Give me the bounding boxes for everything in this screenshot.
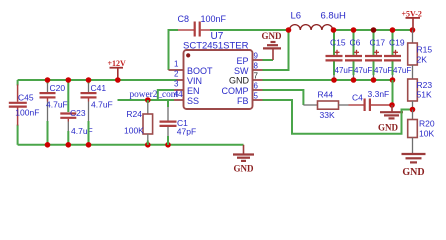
- wire left vertical with C45 inline: [17, 80, 19, 86]
- junction C17 top: [371, 27, 377, 33]
- wire VIN bus: [18, 79, 178, 81]
- junction R24/GND bus: [145, 142, 151, 148]
- junction FB divider node R23/R20: [410, 107, 416, 113]
- junction C1/GND bus: [165, 142, 171, 148]
- svg-text:1: 1: [174, 60, 179, 69]
- junction L6/C15 (+5V node): [331, 27, 337, 33]
- svg-text:SS: SS: [187, 96, 199, 106]
- svg-text:C8: C8: [178, 14, 190, 24]
- junction C20/VIN bus: [45, 77, 51, 83]
- junction C17 bottom/GND rail: [371, 77, 377, 83]
- svg-text:R23: R23: [417, 80, 433, 90]
- svg-text:EN: EN: [187, 86, 200, 96]
- svg-text:GND: GND: [378, 123, 399, 133]
- pin 4 SS: [174, 99, 184, 101]
- wire C23 branch: [67, 80, 69, 112]
- pin 3 EN: [174, 89, 184, 91]
- junction C23/VIN bus: [66, 77, 72, 83]
- svg-text:R44: R44: [318, 90, 334, 100]
- resistor R20: [408, 110, 435, 154]
- svg-text:C20: C20: [50, 83, 66, 93]
- junction C19 top: [390, 27, 396, 33]
- pin 8 SW: [252, 69, 263, 71]
- svg-text:6.8uH: 6.8uH: [321, 11, 346, 22]
- svg-text:100nF: 100nF: [15, 108, 39, 118]
- pin 7 GND: [252, 79, 263, 81]
- capacitor C19: [384, 30, 411, 79]
- svg-text:4.7uF: 4.7uF: [91, 100, 113, 110]
- svg-text:8: 8: [254, 61, 259, 70]
- wire SW to L6: [263, 30, 289, 70]
- power +5V-2: [402, 10, 422, 30]
- junction C4/GND (node): [389, 102, 395, 108]
- svg-text:2K: 2K: [417, 55, 428, 65]
- ground (mid right): [378, 105, 403, 133]
- capacitor C41: [81, 80, 113, 145]
- svg-text:5: 5: [254, 91, 259, 100]
- junction C6 top: [351, 27, 357, 33]
- svg-text:51K: 51K: [417, 90, 432, 100]
- pin 2 VIN: [177, 79, 184, 81]
- svg-text:EP: EP: [236, 56, 248, 66]
- resistor R23: [408, 65, 433, 110]
- svg-text:GND: GND: [262, 31, 283, 41]
- svg-text:L6: L6: [291, 11, 302, 22]
- wire C8 to L6: [210, 29, 289, 31]
- svg-text:BOOT: BOOT: [187, 66, 213, 76]
- inductor L6: [290, 11, 346, 31]
- svg-text:10K: 10K: [419, 129, 434, 139]
- junction C20/GND bus: [45, 142, 51, 148]
- svg-text:4.7uF: 4.7uF: [46, 100, 68, 110]
- junction C6 bottom/GND rail: [351, 77, 357, 83]
- junction C41/GND bus: [86, 142, 92, 148]
- svg-text:C4: C4: [352, 93, 363, 103]
- ground (EP, flipped up): [262, 31, 283, 60]
- capacitor C8: [178, 14, 227, 37]
- resistor R44: [303, 90, 363, 121]
- wire COMP to R44: [263, 90, 304, 105]
- svg-text:47uF: 47uF: [335, 66, 353, 75]
- svg-text:7: 7: [254, 71, 259, 80]
- svg-text:3.3nF: 3.3nF: [368, 89, 390, 99]
- junction +12V/VIN bus: [115, 77, 121, 83]
- svg-text:9: 9: [254, 51, 259, 60]
- junction SW node (C8/L6): [286, 27, 292, 33]
- capacitor C23: [60, 108, 92, 145]
- svg-text:47uF: 47uF: [354, 66, 372, 75]
- capacitor C20: [40, 80, 68, 145]
- wire L6 to +5V: [334, 29, 413, 31]
- svg-text:C6: C6: [350, 37, 361, 47]
- capacitor C45: [9, 85, 40, 126]
- svg-text:C23: C23: [70, 108, 86, 118]
- svg-text:R24: R24: [126, 109, 142, 119]
- junction +5V-2/R15: [410, 27, 416, 33]
- wire C8 loop (BOOT to top): [169, 30, 179, 70]
- svg-text:R15: R15: [417, 45, 433, 55]
- wire FB net: [263, 100, 413, 134]
- wire rail down to C4 junction: [392, 80, 394, 105]
- junction C19 bottom/GND rail: [390, 77, 396, 83]
- svg-text:R20: R20: [419, 119, 435, 129]
- svg-text:47pF: 47pF: [177, 127, 196, 137]
- pin 5 FB: [252, 99, 263, 101]
- svg-text:C15: C15: [330, 37, 346, 47]
- power +12V: [108, 59, 127, 80]
- ground (bottom right): [402, 154, 426, 178]
- pin 6 COMP: [252, 89, 263, 91]
- chip U7 body: [184, 50, 253, 109]
- svg-text:4: 4: [174, 90, 179, 99]
- capacitor C4: [352, 89, 393, 111]
- svg-text:FB: FB: [237, 96, 249, 106]
- capacitor C6: [345, 30, 372, 79]
- pin 1 BOOT: [169, 69, 184, 71]
- svg-text:SCT2451STER: SCT2451STER: [183, 40, 249, 51]
- junction C41/VIN bus: [86, 77, 92, 83]
- wire EP to GND: [263, 59, 274, 61]
- wire power2_cont4 (SS row): [118, 99, 175, 101]
- svg-text:47uF: 47uF: [393, 66, 411, 75]
- svg-text:6: 6: [254, 81, 259, 90]
- junction C23/GND bus: [66, 142, 72, 148]
- pin-1 dot: [186, 53, 190, 57]
- svg-text:VIN: VIN: [187, 76, 202, 86]
- svg-text:COMP: COMP: [222, 86, 249, 96]
- svg-text:C41: C41: [91, 83, 107, 93]
- wire GND rail (pin7): [263, 79, 393, 81]
- svg-text:3: 3: [174, 80, 179, 89]
- svg-text:SW: SW: [234, 66, 249, 76]
- capacitor C1: [160, 100, 197, 145]
- svg-text:GND: GND: [234, 163, 255, 173]
- svg-text:2: 2: [174, 70, 179, 79]
- svg-text:100K: 100K: [124, 126, 144, 136]
- wire bottom bus: [18, 144, 244, 146]
- junction C15 bottom/GND rail: [331, 77, 337, 83]
- pin 9 EP: [252, 59, 263, 61]
- svg-text:C17: C17: [370, 37, 386, 47]
- svg-text:33K: 33K: [320, 110, 335, 120]
- svg-text:C45: C45: [18, 92, 34, 102]
- junction R24/power2_cont4 net: [145, 97, 151, 103]
- capacitor C17: [365, 30, 392, 79]
- svg-text:C19: C19: [389, 37, 405, 47]
- ground (bottom center): [233, 145, 254, 174]
- svg-text:GND: GND: [402, 167, 424, 178]
- svg-text:47uF: 47uF: [374, 66, 392, 75]
- capacitor C15: [326, 30, 353, 79]
- svg-text:GND: GND: [229, 76, 250, 86]
- wire EN jog: [158, 90, 174, 100]
- svg-text:100nF: 100nF: [201, 14, 227, 24]
- resistor R24: [124, 100, 153, 145]
- resistor R15: [408, 30, 433, 65]
